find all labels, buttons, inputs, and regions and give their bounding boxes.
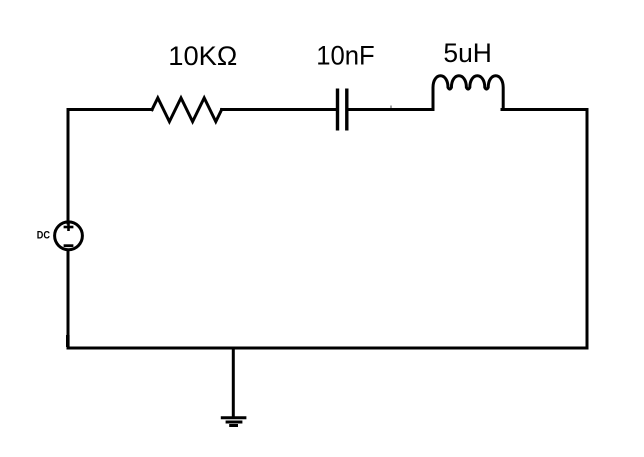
- inductor L1: [433, 76, 503, 110]
- wire capacitor-to-inductor: [349, 108, 433, 111]
- wire joint overlap above bottom-left corner: [66, 335, 70, 347]
- wire right side: [586, 110, 589, 349]
- plus sign inside source: [64, 223, 74, 231]
- svg-text:5uH: 5uH: [443, 38, 492, 68]
- capacitor C1 left plate: [336, 89, 339, 131]
- wire left lower (source to bottom): [67, 251, 70, 348]
- minus sign inside source: [64, 244, 74, 247]
- ground bar 1: [221, 416, 247, 419]
- wire resistor-to-capacitor: [222, 108, 336, 111]
- ground bar 2: [226, 421, 243, 424]
- svg-text:10nF: 10nF: [316, 41, 375, 71]
- wire left upper (source to top): [67, 110, 70, 224]
- resistor R1 zigzag: [152, 98, 222, 122]
- wire top-left segment: [68, 108, 152, 111]
- svg-text:10KΩ: 10KΩ: [168, 41, 237, 71]
- ground bar 3: [229, 424, 238, 427]
- node junction tick: [390, 106, 392, 110]
- ground stem: [232, 348, 235, 417]
- capacitor C1 right plate: [345, 89, 348, 131]
- svg-text:DC: DC: [37, 230, 50, 242]
- wire bottom: [68, 347, 587, 350]
- wire inductor-to-corner: [502, 108, 587, 111]
- voltage source V1 circle: [55, 222, 83, 250]
